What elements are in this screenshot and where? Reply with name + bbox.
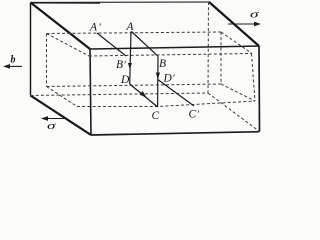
- wire inner box bottom-right depth edge: [221, 84, 255, 101]
- wire outer box front-bottom edge: [91, 132, 260, 135]
- wire line D to C: [130, 84, 158, 107]
- wire inner box top-right depth edge: [221, 32, 252, 54]
- svg-text:D: D: [120, 74, 130, 86]
- wire outer box bottom-right depth edge (hidden): [208, 93, 260, 132]
- arrowhead on BC pointing down at D': [156, 73, 160, 80]
- svg-text:D′: D′: [163, 73, 176, 85]
- svg-text:B: B: [159, 58, 166, 70]
- wire outer box back-right vertical edge (hidden): [207, 2, 210, 93]
- svg-text:σ: σ: [47, 120, 56, 132]
- arrowhead on DC pointing toward C: [140, 91, 147, 98]
- svg-text:b: b: [11, 55, 16, 66]
- svg-text:σ: σ: [250, 9, 259, 21]
- wire inner box front-top edge: [89, 54, 252, 57]
- wire inner box top-back edge: [47, 32, 222, 34]
- arrowhead on AD pointing down: [128, 63, 132, 69]
- svg-text:C′: C′: [189, 109, 200, 121]
- wire outer box front-top edge: [90, 46, 259, 49]
- svg-text:A′: A′: [89, 22, 102, 34]
- wire outer box back-left vertical edge: [30, 3, 32, 96]
- wire outer box top-right depth edge: [209, 2, 259, 46]
- b arrow left: [7, 65, 22, 67]
- wire outer box front-left vertical edge: [90, 49, 91, 135]
- wire inner box front-right vertical edge: [252, 54, 256, 102]
- wire dislocation line AB: [132, 32, 159, 57]
- wire inner box back-bottom edge: [47, 84, 222, 87]
- wire inner box back-left vertical edge: [46, 34, 48, 87]
- wire outer box top-back edge dark left part: [31, 2, 101, 4]
- wire outer box back-bottom edge (hidden): [31, 93, 209, 96]
- wire line D' to C': [158, 80, 194, 107]
- wire outer box front-right vertical edge: [258, 46, 261, 132]
- wire outer box top-left depth edge: [31, 3, 91, 50]
- wire dislocation line A'B': [97, 33, 126, 56]
- wire outer box top-back edge: [31, 1, 210, 4]
- wire inner box top-left depth edge: [47, 34, 90, 57]
- wire inner box bottom-left depth edge: [47, 87, 78, 107]
- wire outer box bottom-left depth edge: [31, 96, 92, 136]
- svg-text:A: A: [126, 21, 135, 33]
- svg-text:B′: B′: [116, 59, 127, 71]
- wire line A to D: [130, 32, 131, 85]
- wire inner box front-bottom edge: [77, 101, 255, 107]
- sigma arrow top right: [228, 23, 257, 25]
- sigma arrow bottom left: [45, 118, 66, 120]
- svg-text:C: C: [152, 110, 160, 122]
- wire line B to C: [157, 56, 159, 107]
- wire inner box back-right vertical edge: [220, 32, 222, 84]
